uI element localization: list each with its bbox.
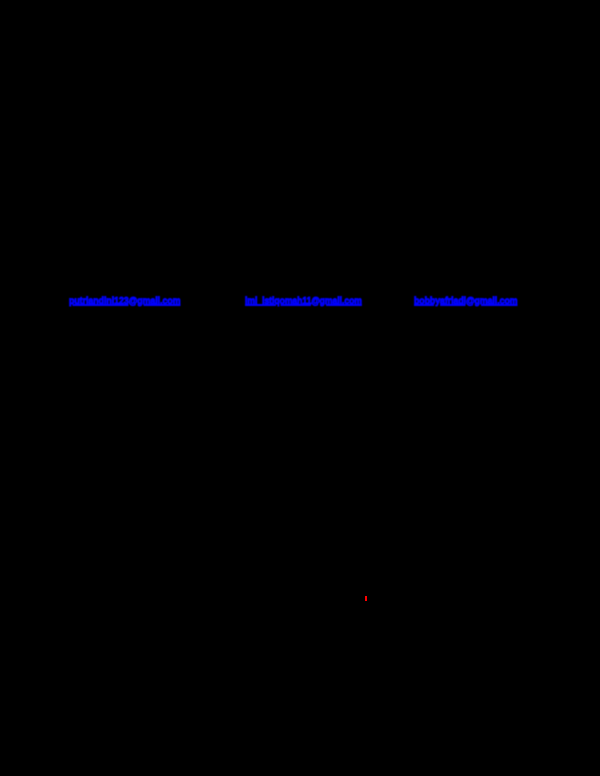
author email link 1 xyxy=(69,296,180,307)
small red text mark xyxy=(365,596,367,601)
author email link 2 xyxy=(245,296,362,307)
author email link 3 xyxy=(414,296,517,307)
